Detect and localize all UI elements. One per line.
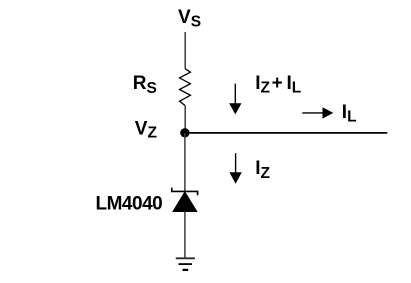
zener diode U1 LM4040: cathode bar: [172, 188, 198, 196]
current arrow IZ (downward): [229, 153, 241, 184]
svg-text:RS: RS: [133, 73, 157, 97]
svg-text:IL: IL: [342, 102, 357, 126]
wire: resistor RS to node VZ: [184, 106, 186, 133]
zener diode U1 LM4040: anode triangle: [173, 192, 197, 212]
svg-text:IZ: IZ: [255, 158, 270, 182]
node VS label: [178, 7, 201, 30]
wire: node VZ to zener diode cathode: [184, 133, 186, 191]
label IL: [342, 102, 357, 126]
current arrow IZ + IL (downward): [229, 84, 241, 115]
svg-text:LM4040: LM4040: [96, 194, 163, 215]
wire: VS down to resistor RS: [184, 32, 186, 69]
node VZ junction dot: [180, 128, 189, 137]
current arrow IL (rightward): [302, 107, 333, 118]
svg-text:VS: VS: [178, 7, 201, 30]
label VZ: [135, 118, 158, 141]
label RS: [133, 73, 157, 97]
svg-text:IZ+IL: IZ+IL: [255, 73, 301, 97]
label IZ + IL: [255, 73, 301, 97]
wire: zener anode to ground: [184, 212, 186, 259]
resistor RS: [180, 69, 191, 106]
label IZ: [255, 158, 270, 182]
ground: [176, 258, 195, 270]
svg-text:VZ: VZ: [135, 118, 158, 141]
wire: node VZ to output (right): [185, 132, 387, 134]
label LM4040: [96, 194, 163, 215]
